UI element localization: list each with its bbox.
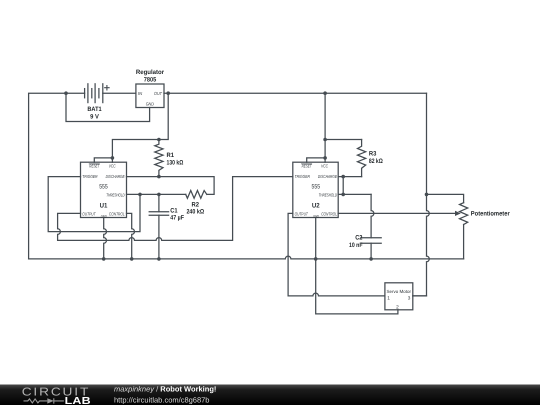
node U1 gnd rail bbox=[102, 257, 106, 261]
servo motor box bbox=[385, 283, 413, 310]
wire C1 bottom lead bbox=[158, 215, 160, 259]
node C1 bottom rail bbox=[157, 257, 161, 261]
resistor R3 bbox=[358, 140, 366, 177]
wire U2 threshold line bbox=[338, 193, 371, 195]
wire battery positive to regulator IN bbox=[103, 92, 136, 94]
svg-text:130 kΩ: 130 kΩ bbox=[167, 159, 184, 166]
node U2 VCC rail tap bbox=[323, 91, 327, 95]
node C1 top on threshold line bbox=[157, 193, 161, 197]
IC U2 555 box bbox=[293, 162, 338, 217]
wire ground rail bbox=[29, 256, 464, 259]
node U2 reset-vcc bbox=[323, 156, 327, 160]
svg-text:9 V: 9 V bbox=[90, 113, 100, 120]
wire U1 GND down with hops bbox=[104, 218, 107, 259]
node U1 control rail bbox=[130, 257, 134, 261]
svg-text:10 nF: 10 nF bbox=[349, 242, 363, 249]
svg-text:OUTPUT: OUTPUT bbox=[295, 211, 309, 216]
wire C1 top lead bbox=[158, 194, 160, 211]
wire U1 control to ground bbox=[127, 213, 135, 259]
U2 reset overline bbox=[302, 163, 312, 165]
footer bar bbox=[0, 385, 540, 405]
resistor R1 bbox=[155, 140, 163, 177]
svg-text:LAB: LAB bbox=[65, 396, 91, 405]
svg-text:TRIGGER: TRIGGER bbox=[82, 174, 98, 179]
svg-text:maxpinkney / Robot Working!: maxpinkney / Robot Working! bbox=[114, 385, 216, 394]
wire U1 reset bracket bbox=[94, 158, 112, 162]
wire U1 output to U2 trigger bbox=[58, 177, 293, 241]
node C2 bottom rail bbox=[369, 257, 373, 261]
potentiometer bbox=[455, 203, 468, 225]
regulator 7805 box bbox=[136, 84, 164, 108]
svg-text:C2: C2 bbox=[355, 234, 363, 241]
wire battery negative branch down to regulator GND bbox=[66, 93, 150, 121]
wire potentiometer top tap bbox=[427, 194, 464, 202]
U1 reset overline bbox=[89, 163, 99, 165]
wire U2 discharge-threshold link bbox=[342, 177, 344, 195]
wire battery negative to far-left rail bbox=[29, 93, 85, 259]
svg-text:555: 555 bbox=[312, 184, 321, 191]
svg-text:CONTROL: CONTROL bbox=[321, 211, 337, 216]
svg-text:VCC: VCC bbox=[109, 164, 117, 169]
battery BAT1 bbox=[85, 84, 110, 103]
wire U2 VCC vertical bbox=[324, 93, 326, 162]
node U1 trigger-threshold bbox=[138, 193, 142, 197]
wire potentiometer bottom bbox=[463, 225, 465, 259]
wire VCC line to U1 bbox=[112, 140, 158, 163]
IC U1 555 box bbox=[81, 162, 127, 217]
svg-text:1: 1 bbox=[387, 295, 390, 300]
node battery negative junction bbox=[64, 91, 68, 95]
capacitor C1 bbox=[149, 212, 168, 216]
wire U1 discharge line bbox=[127, 177, 215, 195]
svg-text:THRESHOLD: THRESHOLD bbox=[106, 192, 125, 197]
svg-text:U1: U1 bbox=[100, 203, 108, 210]
node U2 threshold bbox=[341, 193, 345, 197]
svg-text:BAT1: BAT1 bbox=[87, 106, 102, 113]
wire servo pin 2 return bbox=[316, 259, 398, 314]
svg-text:555: 555 bbox=[99, 184, 108, 191]
svg-text:7805: 7805 bbox=[144, 76, 157, 83]
svg-text:http://circuitlab.com/c8g687b: http://circuitlab.com/c8g687b bbox=[114, 396, 209, 405]
wire U2 reset bracket bbox=[307, 158, 325, 162]
CircuitLab logo LAB bbox=[65, 396, 91, 405]
svg-text:GND: GND bbox=[313, 215, 319, 219]
svg-text:RESET: RESET bbox=[89, 164, 99, 169]
svg-text:240 kΩ: 240 kΩ bbox=[186, 209, 204, 216]
svg-text:OUT: OUT bbox=[154, 91, 162, 96]
svg-text:Regulator: Regulator bbox=[136, 69, 165, 76]
CircuitLab logo wordmark bbox=[22, 386, 90, 398]
wire U2 discharge line bbox=[338, 176, 361, 178]
wire U2 output to servo pin 1 bbox=[288, 213, 385, 296]
svg-text:CONTROL: CONTROL bbox=[109, 211, 125, 216]
svg-text:C1: C1 bbox=[170, 207, 178, 214]
svg-text:Servo Motor: Servo Motor bbox=[387, 289, 412, 294]
wire U1 threshold line bbox=[127, 193, 186, 195]
svg-text:OUTPUT: OUTPUT bbox=[82, 211, 96, 216]
wire servo pin 3 bbox=[413, 295, 427, 297]
wire VCC branch to R3 bbox=[325, 139, 362, 141]
svg-text:GND: GND bbox=[146, 102, 155, 107]
node potentiometer top tap bbox=[425, 193, 429, 197]
svg-text:R1: R1 bbox=[167, 152, 175, 159]
CircuitLab logo squiggle bbox=[24, 398, 64, 403]
svg-text:THRESHOLD: THRESHOLD bbox=[319, 192, 338, 197]
svg-text:DISCHARGE: DISCHARGE bbox=[106, 174, 125, 179]
wire U1 trigger-threshold link bbox=[48, 177, 140, 232]
svg-text:DISCHARGE: DISCHARGE bbox=[318, 174, 337, 179]
svg-text:GND: GND bbox=[101, 215, 107, 219]
svg-text:U2: U2 bbox=[312, 203, 320, 210]
svg-text:RESET: RESET bbox=[302, 164, 312, 169]
IC U1 555 labels bbox=[82, 164, 125, 219]
node regulator OUT junction bbox=[166, 91, 170, 95]
wire C2 bottom lead bbox=[370, 243, 372, 259]
capacitor C2 bbox=[361, 238, 381, 243]
wire right supply vertical with hops bbox=[413, 93, 430, 296]
servo motor labels bbox=[387, 289, 412, 310]
node R1 bottom on discharge line bbox=[157, 175, 161, 179]
wire regulator OUT top rail bbox=[164, 92, 427, 94]
svg-text:VCC: VCC bbox=[321, 164, 329, 169]
svg-text:47 µF: 47 µF bbox=[170, 214, 184, 221]
wire U2 GND down bbox=[315, 218, 317, 259]
svg-text:2: 2 bbox=[396, 305, 399, 310]
wire C2 top lead with hop bbox=[371, 194, 374, 237]
svg-text:Potentiometer: Potentiometer bbox=[471, 210, 510, 217]
svg-text:3: 3 bbox=[408, 295, 411, 300]
svg-text:TRIGGER: TRIGGER bbox=[295, 174, 311, 179]
node U1 reset-vcc bbox=[111, 156, 115, 160]
wire supply drop to VCC line bbox=[159, 93, 168, 139]
node U2 gnd rail bbox=[314, 257, 318, 261]
svg-text:R2: R2 bbox=[192, 202, 200, 209]
IC U2 555 labels bbox=[295, 164, 338, 219]
svg-text:R3: R3 bbox=[369, 150, 377, 157]
node U2 discharge bbox=[341, 175, 345, 179]
node R1 top bbox=[157, 138, 161, 142]
resistor R2 bbox=[186, 191, 207, 199]
wire U2 control to potentiometer wiper bbox=[338, 212, 455, 214]
svg-text:82 kΩ: 82 kΩ bbox=[369, 158, 383, 165]
node U2 VCC branch bbox=[323, 138, 327, 142]
